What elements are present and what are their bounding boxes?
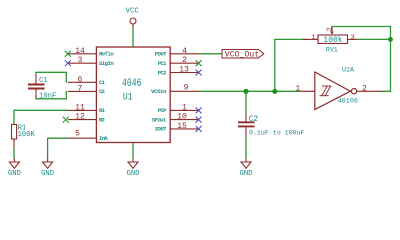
svg-text:VCC: VCC xyxy=(126,8,140,16)
svg-text:R2: R2 xyxy=(99,116,106,123)
svg-text:C1: C1 xyxy=(99,79,106,86)
svg-text:10: 10 xyxy=(177,113,187,122)
svg-text:C2: C2 xyxy=(249,116,259,124)
svg-text:2: 2 xyxy=(182,56,187,65)
svg-text:40106: 40106 xyxy=(338,98,358,106)
svg-text:Refin: Refin xyxy=(99,51,114,58)
svg-text:1: 1 xyxy=(182,103,187,112)
svg-text:GND: GND xyxy=(8,170,21,178)
svg-text:ZOUT: ZOUT xyxy=(155,126,167,133)
svg-text:Inh: Inh xyxy=(99,135,108,142)
svg-text:SigIn: SigIn xyxy=(99,60,114,67)
svg-text:2: 2 xyxy=(326,27,334,31)
svg-text:0.1uF to 100uF: 0.1uF to 100uF xyxy=(249,130,304,137)
svg-text:100K: 100K xyxy=(18,131,36,139)
svg-text:14: 14 xyxy=(75,47,85,56)
svg-text:C2: C2 xyxy=(99,88,106,95)
svg-text:1: 1 xyxy=(311,34,315,42)
svg-text:4046: 4046 xyxy=(122,78,142,90)
svg-text:1: 1 xyxy=(295,84,300,93)
svg-text:GND: GND xyxy=(240,170,253,178)
svg-text:PC2: PC2 xyxy=(158,69,167,76)
svg-text:U2A: U2A xyxy=(342,67,355,75)
svg-text:100k: 100k xyxy=(323,36,342,45)
svg-text:11: 11 xyxy=(75,103,85,112)
svg-text:SFout: SFout xyxy=(152,116,167,123)
svg-text:10nF: 10nF xyxy=(39,93,56,101)
svg-text:7: 7 xyxy=(78,84,83,93)
svg-text:VCOin: VCOin xyxy=(151,88,167,95)
svg-text:RV1: RV1 xyxy=(326,47,338,54)
svg-text:3: 3 xyxy=(350,34,354,42)
svg-text:15: 15 xyxy=(177,122,187,131)
svg-text:PCP: PCP xyxy=(158,107,167,114)
svg-text:VCO_Out: VCO_Out xyxy=(225,49,259,59)
svg-text:6: 6 xyxy=(78,75,83,84)
svg-text:PC1: PC1 xyxy=(158,60,167,67)
svg-text:13: 13 xyxy=(179,66,189,75)
svg-text:U1: U1 xyxy=(123,92,133,103)
svg-text:9: 9 xyxy=(184,84,189,93)
svg-text:R1: R1 xyxy=(99,107,106,114)
svg-text:FOUT: FOUT xyxy=(155,51,167,58)
svg-text:12: 12 xyxy=(75,113,85,122)
svg-text:2: 2 xyxy=(362,84,367,93)
svg-text:GND: GND xyxy=(127,170,140,178)
svg-text:5: 5 xyxy=(75,130,80,139)
svg-text:4: 4 xyxy=(182,47,187,56)
svg-text:GND: GND xyxy=(41,170,54,178)
svg-text:C1: C1 xyxy=(39,77,48,85)
svg-text:3: 3 xyxy=(78,56,83,65)
